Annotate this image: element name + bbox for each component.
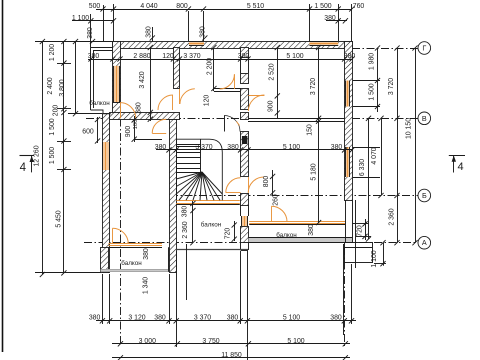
- svg-text:380: 380: [182, 206, 189, 218]
- svg-text:380: 380: [238, 53, 250, 60]
- svg-text:260: 260: [273, 194, 280, 206]
- svg-text:380: 380: [331, 144, 343, 151]
- svg-text:600: 600: [82, 128, 94, 135]
- svg-text:балкон: балкон: [276, 231, 297, 239]
- svg-text:380: 380: [155, 144, 167, 151]
- svg-text:4 040: 4 040: [140, 3, 157, 10]
- svg-text:3 750: 3 750: [202, 338, 219, 345]
- svg-text:В: В: [422, 114, 427, 123]
- svg-text:3 720: 3 720: [310, 78, 317, 95]
- svg-text:6 330: 6 330: [359, 159, 366, 176]
- svg-text:380: 380: [146, 26, 153, 38]
- svg-text:3 120: 3 120: [128, 315, 145, 322]
- svg-text:1 500: 1 500: [314, 3, 331, 10]
- svg-text:5 100: 5 100: [283, 144, 300, 151]
- svg-text:5 100: 5 100: [286, 53, 303, 60]
- svg-text:380: 380: [330, 315, 342, 322]
- svg-text:1 100: 1 100: [72, 15, 89, 22]
- svg-text:380: 380: [324, 15, 336, 22]
- svg-text:10 150: 10 150: [406, 118, 413, 139]
- svg-text:балкон: балкон: [201, 220, 222, 228]
- svg-text:3 370: 3 370: [183, 53, 200, 60]
- svg-text:балкон: балкон: [121, 259, 142, 267]
- svg-text:Б: Б: [422, 191, 427, 200]
- svg-text:2 520: 2 520: [269, 63, 276, 80]
- svg-text:900: 900: [267, 100, 274, 112]
- svg-text:1 500: 1 500: [369, 83, 376, 100]
- svg-text:900: 900: [125, 126, 132, 138]
- svg-text:3 370: 3 370: [194, 315, 211, 322]
- svg-text:12 260: 12 260: [34, 145, 41, 166]
- svg-text:2 360: 2 360: [182, 221, 189, 238]
- svg-text:2 360: 2 360: [389, 208, 396, 225]
- svg-text:120: 120: [204, 95, 211, 107]
- svg-text:1 500: 1 500: [49, 118, 56, 135]
- svg-text:5 100: 5 100: [283, 315, 300, 322]
- svg-text:380: 380: [136, 102, 143, 114]
- svg-text:380: 380: [87, 27, 94, 39]
- svg-text:Г: Г: [422, 44, 426, 53]
- svg-text:380: 380: [200, 26, 207, 38]
- svg-text:500: 500: [89, 3, 101, 10]
- svg-text:150: 150: [307, 124, 314, 136]
- svg-text:5 100: 5 100: [287, 338, 304, 345]
- svg-text:5 180: 5 180: [311, 163, 318, 180]
- svg-text:1 500: 1 500: [49, 147, 56, 164]
- svg-text:1 200: 1 200: [49, 44, 56, 61]
- svg-text:4: 4: [20, 162, 27, 174]
- svg-text:3 720: 3 720: [388, 78, 395, 95]
- svg-text:380: 380: [344, 53, 356, 60]
- svg-text:3 000: 3 000: [139, 338, 156, 345]
- svg-text:720: 720: [225, 228, 232, 240]
- svg-text:2 200: 2 200: [207, 58, 214, 75]
- svg-text:2 880: 2 880: [133, 53, 150, 60]
- svg-text:3 800: 3 800: [59, 79, 66, 96]
- svg-text:2 400: 2 400: [47, 77, 54, 94]
- svg-text:100: 100: [133, 120, 139, 130]
- svg-text:11 850: 11 850: [221, 352, 242, 359]
- svg-text:А: А: [422, 238, 427, 247]
- svg-text:380: 380: [308, 224, 315, 236]
- svg-text:380: 380: [227, 315, 239, 322]
- svg-text:760: 760: [353, 3, 365, 10]
- svg-text:3 420: 3 420: [139, 71, 146, 88]
- svg-text:380: 380: [154, 315, 166, 322]
- svg-text:1 980: 1 980: [369, 53, 376, 70]
- svg-text:380: 380: [88, 53, 100, 60]
- svg-text:4: 4: [457, 161, 463, 173]
- svg-text:5 510: 5 510: [247, 3, 264, 10]
- svg-text:3 370: 3 370: [195, 144, 212, 151]
- svg-text:5 450: 5 450: [56, 210, 63, 227]
- svg-text:380: 380: [89, 315, 101, 322]
- svg-text:балкон: балкон: [89, 99, 110, 107]
- svg-text:380: 380: [227, 144, 239, 151]
- svg-text:120: 120: [162, 53, 174, 60]
- svg-text:4 070: 4 070: [371, 147, 378, 164]
- svg-text:380: 380: [143, 248, 150, 260]
- svg-text:800: 800: [176, 3, 188, 10]
- svg-text:720: 720: [357, 225, 364, 237]
- svg-text:1 100: 1 100: [371, 250, 378, 267]
- svg-text:800: 800: [263, 176, 270, 188]
- svg-text:200: 200: [53, 105, 60, 117]
- svg-text:1 340: 1 340: [143, 277, 150, 294]
